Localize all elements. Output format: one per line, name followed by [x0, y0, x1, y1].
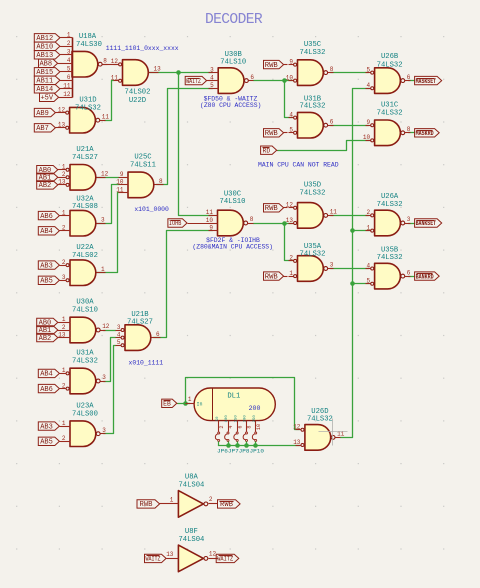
U21A output pin 12 — [97, 177, 106, 179]
svg-text:4: 4 — [366, 262, 370, 269]
U35C input pins — [289, 63, 297, 82]
wire from U30B pin 6 to U35C pin 10 — [254, 80, 293, 82]
svg-text:50: 50 — [216, 416, 220, 421]
U22D pin numbers — [111, 58, 161, 81]
svg-text:8: 8 — [159, 178, 163, 185]
gate U31B (74LS32) body — [298, 112, 324, 138]
svg-text:JP6JP7JP8JP10: JP6JP7JP8JP10 — [217, 447, 265, 454]
U35A input pins — [289, 259, 297, 277]
gate U30B (74LS10) body — [218, 68, 244, 94]
global label AB6 (U32A) — [38, 211, 60, 220]
svg-text:x010_1111: x010_1111 — [129, 360, 164, 367]
U32A input pins — [61, 216, 71, 231]
global label AB1 (U30A) — [37, 326, 61, 335]
svg-text:74LS32: 74LS32 — [300, 49, 326, 57]
svg-text:8: 8 — [407, 126, 411, 133]
svg-text:74LS32: 74LS32 — [300, 251, 326, 259]
svg-text:U18A: U18A — [79, 33, 97, 41]
wire from U35C pin 8 to U26B pin 5 — [331, 72, 369, 74]
gate U31A (74LS32) body — [70, 368, 96, 394]
U30A output pin 12 — [96, 328, 105, 332]
U31B pin numbers — [289, 111, 333, 133]
svg-text:13: 13 — [166, 551, 174, 558]
gate U21A (74LS27) body — [70, 165, 96, 191]
svg-text:(Z80&MAIN CPU ACCESS): (Z80&MAIN CPU ACCESS) — [192, 244, 273, 251]
svg-text:74LS10: 74LS10 — [220, 59, 246, 67]
svg-text:2: 2 — [219, 425, 225, 428]
svg-text:8: 8 — [103, 57, 107, 64]
svg-text:U23A: U23A — [76, 402, 94, 410]
svg-text:U22A: U22A — [76, 244, 94, 252]
svg-text:74LS04: 74LS04 — [178, 536, 204, 544]
svg-text:11: 11 — [206, 209, 214, 216]
svg-text:RWB: RWB — [265, 205, 279, 213]
svg-text:U21A: U21A — [76, 146, 94, 154]
wire net 1111_1101 vertical branch down to U30C pin 11 — [179, 73, 213, 216]
svg-text:12: 12 — [101, 171, 109, 178]
svg-text:2: 2 — [209, 496, 213, 503]
svg-text:74LS32: 74LS32 — [307, 416, 333, 424]
svg-text:EB: EB — [163, 401, 171, 408]
gate U26A (74LS32) body — [375, 210, 401, 236]
svg-text:U31C: U31C — [381, 101, 399, 109]
gate U25C (74LS11) body — [128, 172, 154, 198]
U26B output pin 6 — [401, 79, 411, 83]
svg-text:AB7: AB7 — [36, 125, 49, 133]
global label AB3 (U23A) — [38, 422, 60, 431]
svg-text:10: 10 — [206, 217, 214, 224]
U31A input pins — [61, 372, 70, 390]
global label AB8 — [39, 59, 61, 68]
global label IOHB — [168, 219, 213, 227]
svg-text:5: 5 — [289, 127, 293, 134]
global label AB12 — [34, 34, 60, 43]
U25C output pin 8 — [155, 184, 164, 186]
svg-text:74LS27: 74LS27 — [72, 154, 98, 162]
global label WAITZ (U30B) — [185, 76, 212, 84]
svg-text:RD: RD — [263, 147, 271, 154]
U30B output pin 6 — [245, 79, 254, 83]
U31C pin numbers — [363, 119, 411, 141]
svg-text:5: 5 — [366, 66, 370, 73]
svg-text:74LS02: 74LS02 — [125, 89, 151, 97]
svg-text:74LS32: 74LS32 — [300, 103, 326, 111]
global label AB1 — [37, 173, 61, 182]
U30C pin numbers — [206, 209, 254, 231]
U26A output pin 3 — [401, 221, 411, 225]
svg-text:4: 4 — [366, 82, 370, 89]
svg-text:74LS04: 74LS04 — [178, 482, 204, 490]
U22A output pin 1 — [97, 272, 106, 274]
U35B pin numbers — [366, 262, 410, 284]
gate U31D (74LS32) body — [70, 107, 96, 133]
svg-text:1: 1 — [62, 420, 66, 427]
svg-text:12: 12 — [102, 323, 110, 330]
svg-text:74LS30: 74LS30 — [76, 41, 102, 49]
wire jumper bus line to U26D pin 13 — [219, 445, 300, 447]
svg-text:12: 12 — [209, 551, 217, 558]
wire from U32A pin 3 up to U25C pin 10 — [97, 185, 119, 224]
junction at U30C output branch — [282, 221, 287, 226]
svg-text:11: 11 — [102, 113, 110, 120]
svg-text:RWB: RWB — [265, 130, 279, 138]
U26A pin numbers — [366, 209, 410, 231]
U30A input pins — [61, 323, 71, 338]
svg-text:1: 1 — [62, 164, 66, 171]
svg-text:1111_1101_0xxx_xxxx: 1111_1101_0xxx_xxxx — [106, 45, 179, 52]
svg-text:9: 9 — [209, 224, 213, 231]
global label AB6 (U31A) — [38, 384, 60, 393]
svg-text:2: 2 — [289, 255, 293, 262]
svg-text:74LS27: 74LS27 — [127, 318, 153, 326]
junction at U30B output branch — [282, 78, 287, 83]
U8F input pin 13 — [166, 551, 178, 558]
svg-text:3: 3 — [210, 66, 214, 73]
inverter U8F (74LS04) body — [178, 545, 203, 572]
DL1 tap pin 8 with jumper — [243, 415, 253, 446]
gate U35C (74LS32) body — [298, 60, 324, 86]
U35C pin numbers — [286, 58, 334, 81]
svg-text:WAITZ: WAITZ — [146, 556, 161, 563]
junction jumper tap 3 — [244, 443, 249, 448]
wire from U35D pin 11 to U26A pin 2 — [331, 215, 369, 217]
svg-text:U26B: U26B — [381, 53, 399, 61]
U35D pin numbers — [286, 202, 338, 224]
U31D pin numbers — [58, 106, 110, 128]
svg-text:2: 2 — [62, 324, 66, 331]
svg-text:74LS00: 74LS00 — [72, 410, 98, 418]
global label RWB (U35D) — [264, 204, 288, 213]
global label AB5 (U22A) — [38, 276, 60, 285]
svg-text:12: 12 — [293, 424, 301, 431]
svg-text:AB4: AB4 — [40, 228, 53, 236]
svg-text:2: 2 — [62, 225, 66, 232]
svg-text:5: 5 — [117, 339, 121, 346]
global label RWB (U8A input) — [137, 500, 167, 509]
svg-text:AB5: AB5 — [40, 278, 53, 286]
svg-text:U22D: U22D — [129, 97, 146, 105]
svg-text:AB3: AB3 — [40, 262, 53, 270]
wire from U22A pin 1 up to U25C pin 11 — [97, 193, 119, 273]
U26D output pin 11 — [331, 436, 340, 440]
svg-text:U26A: U26A — [381, 193, 399, 201]
svg-text:5: 5 — [67, 66, 71, 73]
U26A input pins — [366, 214, 374, 232]
svg-text:8: 8 — [247, 425, 253, 428]
gate U35A (74LS32) body — [298, 256, 324, 282]
svg-text:2: 2 — [67, 40, 71, 47]
svg-text:AB9: AB9 — [36, 110, 49, 118]
DL1 tap pin 6 with jumper — [234, 415, 244, 446]
power label +5V — [40, 93, 61, 102]
global label AB2 — [37, 181, 61, 190]
U8A input pin 1 — [167, 497, 179, 504]
global label AB14 — [34, 85, 60, 94]
svg-text:3: 3 — [67, 49, 71, 56]
svg-text:5: 5 — [210, 82, 214, 89]
U31C input pins — [366, 124, 374, 142]
svg-text:1: 1 — [62, 367, 66, 374]
svg-text:x101_0000: x101_0000 — [134, 206, 169, 213]
svg-text:200: 200 — [244, 415, 248, 423]
gate U26B (74LS32) body — [375, 68, 401, 94]
svg-text:13: 13 — [293, 439, 301, 446]
svg-text:9: 9 — [289, 58, 293, 65]
U21B pin numbers — [117, 324, 160, 346]
wire from U30C pin 8 to U35D pin 13 — [254, 223, 293, 225]
svg-text:250: 250 — [253, 415, 257, 423]
wire link U18A pin 8 to U22D pin 12 — [103, 64, 118, 66]
svg-text:4: 4 — [67, 57, 71, 64]
svg-text:8: 8 — [330, 66, 334, 73]
DL1 tap pin 2 with jumper — [215, 416, 225, 446]
svg-text:13: 13 — [286, 217, 294, 224]
svg-text:U35C: U35C — [304, 41, 322, 49]
svg-text:8: 8 — [250, 216, 254, 223]
svg-text:2: 2 — [366, 209, 370, 216]
svg-text:RWB: RWB — [140, 501, 154, 509]
global label RD — [261, 146, 278, 154]
wire net x010_1111 from U21B pin 6 up to U30C pin 9 — [154, 231, 213, 338]
svg-text:AB4: AB4 — [40, 371, 53, 379]
svg-text:150: 150 — [234, 415, 238, 423]
wire from U35A pin 3 to U35B pin 4 — [331, 268, 369, 270]
wire from U31A pin 3 up to U21B pin 4 — [104, 338, 116, 382]
U35A pin numbers — [289, 255, 333, 277]
gate U21B (74LS27) body — [125, 325, 151, 351]
U18A input pins — [61, 38, 73, 98]
U30B pin numbers — [210, 66, 254, 89]
svg-text:6: 6 — [250, 74, 254, 81]
gate U32A (74LS08) body — [70, 210, 96, 236]
svg-text:AB6: AB6 — [40, 213, 53, 221]
svg-text:AB2: AB2 — [39, 335, 52, 343]
wire from RD label to U31C pin 10 — [278, 141, 370, 151]
U25C pin numbers — [116, 171, 163, 193]
global label AB4 (U32A) — [38, 227, 60, 236]
svg-text:6: 6 — [237, 425, 243, 428]
svg-text:RWB: RWB — [265, 273, 279, 281]
U23A input pins — [61, 427, 71, 442]
svg-text:In: In — [196, 401, 202, 407]
U22D input pins — [114, 63, 122, 82]
svg-text:74LS10: 74LS10 — [72, 307, 98, 315]
svg-text:6: 6 — [67, 74, 71, 81]
svg-text:BANKRD: BANKRD — [416, 273, 434, 280]
svg-text:74LS32: 74LS32 — [75, 104, 101, 112]
wire branch to U35B pin 5 — [353, 283, 370, 285]
wire from U26B pin 6 to MASKSET label — [409, 80, 415, 82]
svg-text:2: 2 — [62, 171, 66, 178]
svg-text:MAIN CPU CAN NOT READ: MAIN CPU CAN NOT READ — [258, 162, 339, 169]
junction at U22D output branch — [176, 70, 181, 75]
global label AB0 — [37, 166, 61, 175]
global label AB0 (U30A) — [37, 318, 61, 327]
junction on vertical net at U26A pin 1 — [350, 228, 355, 233]
wire from U31C pin 8 to MASKRD label — [409, 132, 415, 134]
svg-text:3: 3 — [62, 274, 66, 281]
gate U18A (74LS30 8-input NAND) body — [72, 38, 98, 98]
U35B output pin 6 — [401, 274, 411, 278]
svg-text:DECODER: DECODER — [205, 12, 263, 28]
U31A output pin 3 — [96, 379, 105, 383]
delay line DL1 body — [194, 388, 275, 421]
wire branch from junction down to U35A pin 2 — [285, 224, 293, 261]
junction on vertical net at U35B pin 5 — [350, 281, 355, 286]
svg-text:9: 9 — [366, 119, 370, 126]
U26D input pins — [296, 428, 305, 446]
wire branch to U26A pin 1 — [353, 230, 370, 232]
svg-text:U35A: U35A — [304, 243, 322, 251]
svg-text:U25C: U25C — [134, 154, 152, 162]
svg-text:11: 11 — [330, 209, 338, 216]
svg-text:1: 1 — [62, 209, 66, 216]
svg-text:10: 10 — [256, 424, 262, 430]
wire net EB from label to DL1 pin 1 — [178, 403, 190, 405]
U21B input pins — [116, 329, 125, 347]
svg-text:3: 3 — [101, 216, 105, 223]
svg-text:2: 2 — [62, 382, 66, 389]
U35B input pins — [366, 267, 374, 285]
wire from U21A pin 12 to U25C pin 9 — [97, 177, 119, 179]
wire net 1111_1101 from U22D pin 13 to U30B pin 3 with branch — [149, 72, 213, 74]
junction at EB net branch — [183, 401, 188, 406]
global label AB9 — [34, 108, 60, 117]
wire net EB branch up and over to U26D pin 12 — [186, 378, 300, 430]
global label RWB (U35C) — [264, 60, 288, 69]
global label RWB (U31B) — [264, 129, 288, 138]
svg-text:13: 13 — [154, 66, 162, 73]
svg-text:74LS32: 74LS32 — [300, 190, 326, 198]
svg-text:WAITZ: WAITZ — [217, 556, 233, 563]
wire from U23A pin 3 up to U21B pin 5 — [104, 346, 116, 434]
svg-text:RWB: RWB — [265, 62, 279, 70]
svg-text:11: 11 — [63, 83, 71, 90]
anchor crosshair marker at U26D — [319, 419, 348, 446]
svg-text:74LS11: 74LS11 — [130, 162, 156, 170]
U30A pin numbers — [58, 316, 110, 338]
svg-text:U30A: U30A — [76, 299, 94, 307]
svg-text:200: 200 — [249, 405, 261, 412]
gate U30C (74LS10) body — [218, 210, 244, 236]
wire branch from junction down to U31B pin 4 — [285, 81, 293, 118]
wire net from U26D pin 11 up to U26B pin 4 (long vertical) — [341, 89, 370, 438]
svg-text:1: 1 — [366, 224, 370, 231]
wire from U35B pin 6 to BANKRD label — [409, 276, 415, 278]
gate U35B (74LS32) body — [375, 263, 401, 289]
global label MASKSET — [415, 76, 442, 84]
svg-text:3: 3 — [102, 427, 106, 434]
U31D output pin 11 — [96, 118, 106, 122]
svg-text:RWB: RWB — [220, 501, 234, 509]
svg-text:74LS32: 74LS32 — [377, 254, 403, 262]
svg-text:2: 2 — [62, 259, 66, 266]
U32A pin numbers — [62, 209, 105, 231]
global label WAITZ (U8F input) — [145, 554, 167, 562]
wire from U31D pin 11 up to U22D pin 11 — [105, 81, 114, 121]
gate U31C (74LS32) body — [375, 120, 401, 146]
global label AB4 (U31A) — [38, 369, 60, 378]
svg-text:74LS10: 74LS10 — [220, 198, 246, 206]
svg-text:AB3: AB3 — [40, 423, 53, 431]
U35D output pin 11 — [324, 214, 334, 218]
U30C output pin 8 — [244, 221, 254, 225]
U31C output pin 8 — [401, 131, 411, 135]
wire from U26A pin 3 to BANKSET label — [409, 223, 415, 225]
U30B input pins — [209, 73, 219, 89]
U21A input pins — [61, 168, 70, 186]
global label MASKRD — [415, 129, 440, 137]
svg-text:6: 6 — [330, 118, 334, 125]
U31A pin numbers — [62, 367, 106, 389]
global label AB2 (U30A) — [37, 333, 61, 342]
global label EB — [162, 399, 178, 407]
global label AB3 (U22A) — [38, 261, 60, 270]
U26B pin numbers — [366, 66, 410, 89]
svg-text:10: 10 — [363, 134, 371, 141]
U8F output pin 12 — [204, 551, 218, 561]
svg-text:6: 6 — [407, 269, 411, 276]
svg-text:3: 3 — [407, 216, 411, 223]
U35D input pins — [289, 206, 297, 224]
U21A pin numbers — [58, 164, 108, 186]
U22D output pin 13 — [149, 72, 159, 74]
svg-text:5: 5 — [366, 278, 370, 285]
svg-text:100: 100 — [225, 415, 229, 423]
U26D pin numbers — [293, 424, 345, 446]
U22A input pins — [61, 264, 70, 282]
svg-text:11: 11 — [111, 75, 119, 82]
svg-text:6: 6 — [407, 74, 411, 81]
U31B output pin 6 — [324, 123, 334, 127]
svg-text:11: 11 — [116, 186, 124, 193]
global label RWB (U8A output, inverted) — [218, 500, 241, 509]
svg-text:74LS08: 74LS08 — [72, 203, 98, 211]
global label AB5 (U23A) — [38, 437, 60, 446]
svg-text:1: 1 — [289, 270, 293, 277]
svg-text:BANKSET: BANKSET — [416, 220, 437, 227]
gate U23A (74LS00) body — [70, 421, 96, 447]
U30C input pins — [209, 216, 218, 231]
svg-text:1: 1 — [62, 316, 66, 323]
global label BANKSET — [415, 219, 442, 227]
U26B input pins — [366, 71, 374, 90]
svg-text:4: 4 — [117, 331, 121, 338]
svg-text:10: 10 — [116, 179, 124, 186]
DL1 input pin 1 — [186, 396, 195, 404]
gate U26D (74LS32) body — [305, 425, 331, 451]
wire net x101_0000 from U25C pin 8 up to U30B pin 5 — [157, 89, 213, 185]
svg-text:(Z80 CPU ACCESS): (Z80 CPU ACCESS) — [200, 102, 261, 109]
svg-text:1: 1 — [67, 32, 71, 39]
U23A output pin 3 — [96, 432, 105, 436]
gate U22A (74LS02) body — [70, 260, 96, 286]
global label AB11 — [34, 76, 60, 85]
svg-text:U8F: U8F — [185, 528, 198, 536]
svg-text:IOHB: IOHB — [169, 220, 182, 227]
U22A pin numbers — [62, 259, 105, 281]
gate U30A (74LS10) body — [70, 317, 96, 343]
svg-text:4: 4 — [289, 111, 293, 118]
U18A pin numbers — [63, 32, 107, 99]
global label AB13 — [34, 51, 60, 60]
svg-text:+5V: +5V — [40, 95, 53, 103]
svg-text:4: 4 — [228, 425, 234, 428]
U35C output pin 8 — [324, 71, 334, 75]
svg-text:DL1: DL1 — [227, 393, 240, 401]
gate U35D (74LS32) body — [298, 203, 324, 229]
svg-text:12: 12 — [111, 58, 119, 65]
